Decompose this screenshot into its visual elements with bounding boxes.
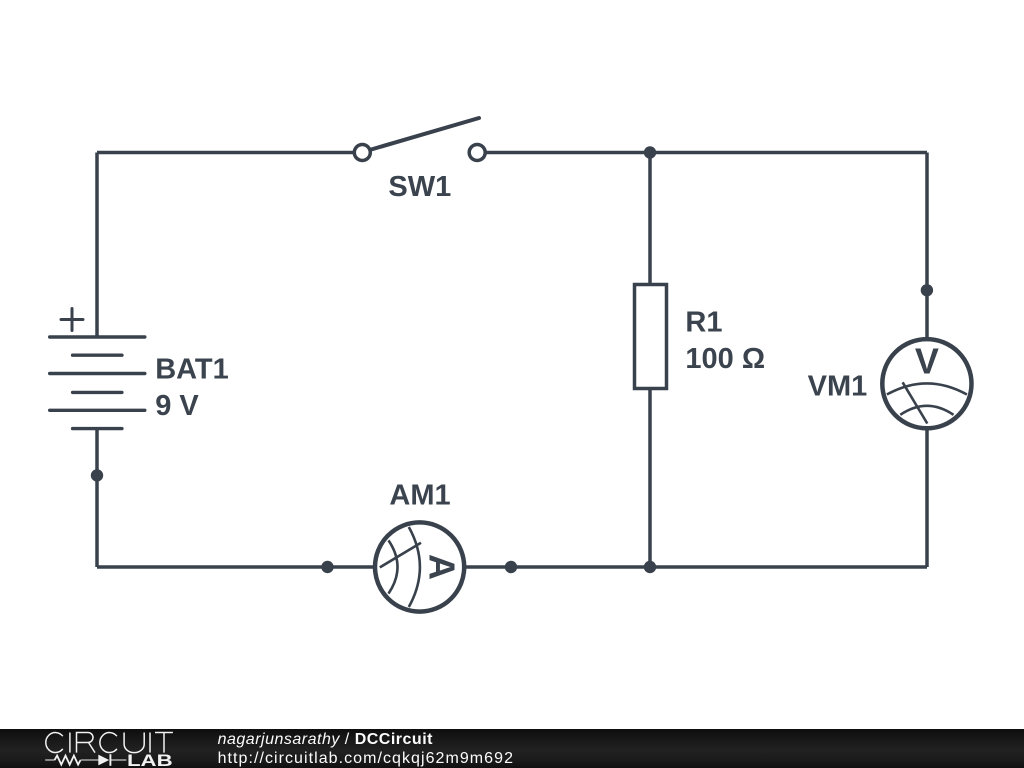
SW1 lever <box>370 118 480 150</box>
ammeter AM1 <box>375 522 464 611</box>
logo letter C2 <box>100 733 117 753</box>
BAT1 plate 2 short <box>73 354 122 357</box>
BAT1 plate 6 short <box>73 427 122 430</box>
AM1 body circle <box>375 522 464 611</box>
svg-text:V: V <box>915 341 939 382</box>
junction dot bottom (R1/bottom wire) <box>644 561 656 573</box>
wire battery bottom lead <box>95 429 99 567</box>
logo diode wire <box>111 759 127 761</box>
VM1 scale arc outer <box>887 383 967 394</box>
logo letter U <box>124 733 144 753</box>
battery BAT1 <box>50 309 145 429</box>
logo letter C <box>46 733 63 753</box>
watermark author line <box>218 731 433 749</box>
SW1 left contact circle <box>354 145 370 161</box>
wire bottom horizontal <box>97 565 927 569</box>
BAT1 plate 3 long <box>50 372 145 375</box>
logo letter I2 <box>149 733 151 753</box>
AM1 scale arc inner <box>389 540 398 593</box>
logo letter R <box>77 733 96 753</box>
AM1 needle <box>380 543 421 568</box>
svg-text:BAT1: BAT1 <box>155 353 229 385</box>
junction dot battery lead <box>91 469 103 481</box>
wire top-right horizontal <box>486 151 928 155</box>
junction dot bottom left of AM1 <box>321 561 333 573</box>
SW1 right contact circle <box>469 145 485 161</box>
svg-text:AM1: AM1 <box>389 480 450 512</box>
VM1 scale arc inner <box>900 406 953 415</box>
resistor R1 <box>635 285 667 389</box>
logo resistor zigzag <box>55 756 81 765</box>
watermark url line <box>218 750 514 768</box>
VM1 body circle <box>882 339 971 428</box>
svg-text:R1: R1 <box>685 307 722 339</box>
logo diode triangle <box>98 755 109 766</box>
voltmeter VM1 <box>882 339 971 428</box>
wire R1 bottom lead <box>648 389 652 568</box>
BAT1 plate 4 short <box>73 391 122 394</box>
logo lead-in wire <box>45 759 54 761</box>
CircuitLab logo <box>44 731 184 768</box>
wire right vertical top (voltmeter top lead) <box>925 153 929 341</box>
AM1 scale arc outer <box>409 527 420 607</box>
BAT1 plate 5 long <box>50 409 145 412</box>
svg-text:LAB: LAB <box>127 752 173 768</box>
svg-text:100 Ω: 100 Ω <box>685 343 765 375</box>
BAT1 plus sign <box>61 309 83 331</box>
watermark bar <box>0 729 1024 768</box>
logo mid wire <box>81 759 99 761</box>
logo diode cathode bar <box>109 754 111 766</box>
switch SW1 <box>354 118 485 161</box>
BAT1 plate 1 long <box>50 335 145 338</box>
svg-text:A: A <box>422 554 463 580</box>
wire top-left horizontal <box>97 151 354 155</box>
junction dot bottom right of AM1 <box>505 561 517 573</box>
logo letter T <box>155 733 173 753</box>
logo LAB text <box>127 752 173 768</box>
logo letter I <box>69 733 71 753</box>
junction dot right wire <box>921 284 933 296</box>
svg-text:VM1: VM1 <box>808 371 868 403</box>
VM1 needle <box>903 382 928 423</box>
wire R1 top lead <box>648 153 652 285</box>
wire left vertical (battery top lead) <box>95 153 99 338</box>
junction dot top (R1/top wire) <box>644 146 656 158</box>
svg-text:9 V: 9 V <box>155 390 199 422</box>
wire right vertical bottom (voltmeter bottom lead) <box>925 428 929 567</box>
svg-text:SW1: SW1 <box>388 171 451 203</box>
